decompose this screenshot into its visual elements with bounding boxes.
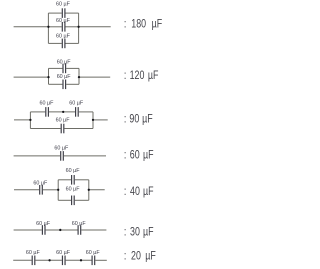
svg-text:60 µF: 60 µF	[66, 186, 81, 192]
svg-text:90: 90	[129, 112, 139, 126]
svg-text:60 µF: 60 µF	[54, 145, 69, 151]
svg-text:µF: µF	[145, 249, 156, 263]
svg-text::: :	[124, 112, 126, 126]
svg-text:60 µF: 60 µF	[57, 59, 72, 65]
svg-text:40: 40	[130, 185, 140, 199]
svg-text:µF: µF	[148, 69, 159, 83]
svg-text:180: 180	[131, 17, 146, 31]
svg-text:µF: µF	[142, 112, 153, 126]
svg-text:60 µF: 60 µF	[69, 100, 84, 106]
svg-text:60 µF: 60 µF	[33, 181, 48, 187]
svg-text:µF: µF	[152, 17, 163, 31]
svg-text::: :	[124, 225, 126, 239]
svg-text:60 µF: 60 µF	[56, 34, 71, 40]
svg-text:60 µF: 60 µF	[86, 250, 101, 256]
svg-text:60 µF: 60 µF	[56, 118, 71, 124]
svg-text:60 µF: 60 µF	[56, 2, 71, 8]
svg-text::: :	[124, 17, 126, 31]
svg-text:µF: µF	[143, 185, 154, 199]
svg-text:60 µF: 60 µF	[26, 250, 41, 256]
svg-text::: :	[124, 148, 126, 162]
svg-text:120: 120	[130, 69, 145, 83]
svg-text::: :	[124, 69, 126, 83]
svg-text:60 µF: 60 µF	[36, 221, 51, 227]
svg-text:60 µF: 60 µF	[40, 100, 55, 106]
svg-text::: :	[124, 185, 126, 199]
svg-text:30: 30	[130, 225, 140, 239]
svg-text:60 µF: 60 µF	[56, 18, 71, 24]
svg-text:60 µF: 60 µF	[57, 74, 72, 80]
svg-text:60 µF: 60 µF	[56, 250, 71, 256]
svg-text::: :	[124, 249, 126, 263]
svg-text:20: 20	[131, 249, 141, 263]
svg-text:µF: µF	[143, 225, 154, 239]
svg-text:60: 60	[130, 148, 140, 162]
svg-text:60 µF: 60 µF	[66, 168, 81, 174]
svg-text:µF: µF	[143, 148, 154, 162]
svg-text:60 µF: 60 µF	[72, 221, 87, 227]
